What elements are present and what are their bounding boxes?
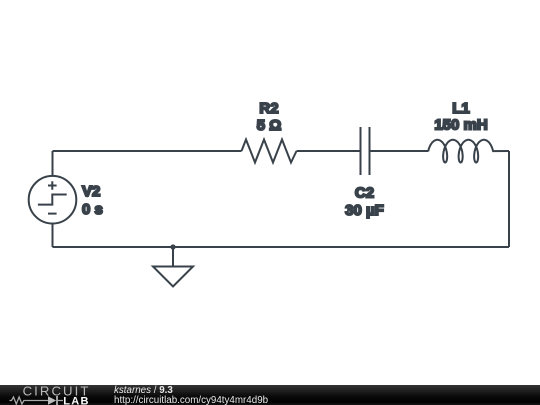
- svg-text:0 s: 0 s: [82, 201, 103, 218]
- wire: left vertical bottom (V2 bottom to corner): [52, 224, 54, 248]
- logo: CircuitLab: [0, 385, 110, 405]
- ground: [153, 267, 193, 287]
- svg-text:C2: C2: [355, 185, 374, 202]
- resistor R2: [242, 140, 297, 163]
- svg-text:150 mH: 150 mH: [434, 117, 487, 134]
- voltage source V2: [29, 176, 77, 224]
- svg-text:R2: R2: [259, 100, 278, 117]
- footer meta text: [113, 383, 115, 385]
- footer bar: [0, 385, 540, 405]
- node: ground junction dot: [170, 244, 175, 249]
- svg-text:5 Ω: 5 Ω: [257, 117, 282, 134]
- wire: ground stem: [172, 247, 174, 267]
- wire: right vertical: [508, 151, 510, 247]
- wire: left vertical top (corner to V2 top): [52, 151, 54, 176]
- wire: bottom horizontal: [53, 246, 510, 248]
- wire: top-left horizontal (source to R2): [53, 150, 242, 152]
- svg-text:30 µF: 30 µF: [345, 202, 384, 219]
- wire: C2 to L1: [370, 150, 422, 152]
- svg-text:L1: L1: [452, 100, 470, 117]
- svg-text:LAB: LAB: [63, 395, 90, 405]
- svg-text:V2: V2: [82, 183, 100, 200]
- inductor L1: [421, 140, 509, 163]
- wire: R2 to C2: [297, 150, 361, 152]
- capacitor C2: [361, 127, 370, 175]
